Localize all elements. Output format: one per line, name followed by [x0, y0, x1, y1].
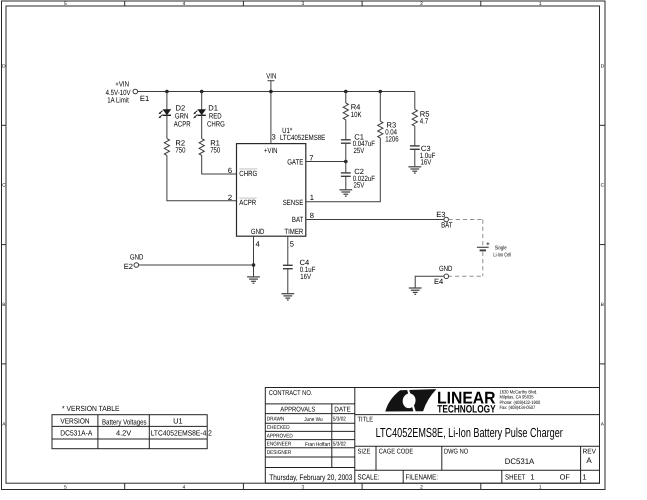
wire: VIN vertical to pin 3: [270, 81, 272, 144]
svg-text:June Wu: June Wu: [304, 417, 322, 423]
svg-text:DESIGNER: DESIGNER: [267, 450, 291, 456]
svg-text:SCALE:: SCALE:: [358, 472, 380, 481]
svg-text:4.2V: 4.2V: [116, 429, 131, 438]
ground below C3: [408, 167, 421, 173]
junction node pin4/E2: [252, 263, 256, 267]
terminal E3 BAT: [436, 210, 453, 230]
svg-text:Milpitas, CA 95035: Milpitas, CA 95035: [500, 395, 534, 401]
svg-text:VIN: VIN: [266, 71, 276, 80]
version table: [52, 404, 212, 449]
svg-text:FILENAME:: FILENAME:: [406, 472, 439, 481]
svg-text:OF: OF: [560, 473, 571, 482]
svg-text:C: C: [601, 183, 605, 189]
zone numbers top: [64, 1, 542, 7]
svg-text:1: 1: [539, 484, 542, 490]
svg-text:5: 5: [64, 484, 67, 490]
svg-text:SENSE: SENSE: [283, 198, 304, 207]
svg-text:1: 1: [582, 473, 586, 482]
resistor R3 0.04 1206: [306, 92, 399, 202]
svg-text:GATE: GATE: [287, 157, 303, 166]
svg-text:GND: GND: [130, 252, 144, 261]
svg-text:BAT: BAT: [292, 215, 304, 224]
svg-text:Single: Single: [495, 245, 507, 251]
svg-text:4: 4: [183, 1, 186, 7]
terminal E2 GND: [124, 252, 254, 270]
svg-text:D: D: [601, 63, 605, 69]
svg-text:C: C: [2, 183, 6, 189]
svg-text:6: 6: [228, 166, 232, 175]
capacitor C3 1.0uF: [410, 144, 436, 166]
resistor R4 10K: [343, 92, 361, 140]
zone ticks bottom: [125, 483, 481, 489]
svg-text:Thursday, February 20, 2003: Thursday, February 20, 2003: [269, 473, 353, 482]
LED D2 GRN/ACPR: [158, 92, 191, 139]
IC U1 LTC4052EMS8E: [228, 126, 325, 249]
wire: GATE pin 7 to C1/C2 node: [306, 161, 346, 163]
LED D1 RED/CHRG: [193, 92, 225, 139]
svg-text:LTC4052EMS8E: LTC4052EMS8E: [280, 133, 325, 142]
svg-text:4.7: 4.7: [420, 116, 429, 125]
zone ticks top: [125, 1, 481, 6]
svg-text:TECHNOLOGY: TECHNOLOGY: [437, 403, 495, 415]
svg-text:TIMER: TIMER: [284, 227, 303, 236]
svg-text:2: 2: [228, 193, 232, 202]
zone ticks right: [600, 125, 606, 364]
terminal E1: [106, 79, 150, 104]
svg-text:SIZE: SIZE: [358, 448, 371, 455]
svg-text:5: 5: [64, 1, 67, 7]
junction node GATE: [344, 160, 348, 164]
svg-text:GND: GND: [439, 264, 453, 273]
svg-text:25V: 25V: [354, 146, 366, 155]
wire: R1 to CHRG pin 6: [202, 155, 237, 174]
svg-text:DC531A: DC531A: [505, 457, 535, 466]
svg-text:E1: E1: [140, 94, 149, 103]
svg-text:E4: E4: [434, 277, 443, 286]
wire: TIMER pin 5 down: [287, 236, 289, 265]
svg-text:LTC4052EMS8E, Li-Ion Battery P: LTC4052EMS8E, Li-Ion Battery Pulse Charg…: [376, 425, 564, 440]
Linear Technology logo: [385, 389, 540, 416]
svg-text:VERSION: VERSION: [60, 416, 89, 425]
svg-text:BAT: BAT: [441, 221, 453, 230]
svg-text:LTC4052EMS8E-4.2: LTC4052EMS8E-4.2: [151, 429, 212, 438]
svg-text:+VIN: +VIN: [264, 146, 278, 155]
capacitor C1 0.047uF: [341, 132, 375, 173]
svg-text:16V: 16V: [300, 272, 312, 281]
svg-text:1: 1: [539, 1, 542, 7]
svg-text:2: 2: [420, 484, 423, 490]
battery cell: [477, 242, 511, 258]
svg-text:4: 4: [183, 484, 186, 490]
svg-text:1A Limit: 1A Limit: [107, 95, 129, 104]
wire: +VIN top rail: [138, 91, 415, 93]
svg-text:E2: E2: [124, 262, 133, 271]
zone ticks left: [2, 125, 7, 364]
resistor R5 4.7: [412, 92, 429, 146]
svg-text:GND: GND: [251, 227, 265, 236]
svg-text:Fax: (408)434-0507: Fax: (408)434-0507: [500, 405, 536, 411]
wire: GND pin 4 down: [253, 236, 255, 276]
ground below pin 4: [247, 277, 260, 283]
junction nodes on rail: [165, 90, 382, 94]
capacitor C4 0.1uF: [283, 258, 316, 293]
svg-text:B: B: [2, 302, 5, 308]
svg-text:A: A: [586, 456, 592, 465]
svg-text:CHRG: CHRG: [207, 120, 225, 129]
wire: dashed battery hookup: [449, 220, 483, 277]
svg-text:10K: 10K: [351, 110, 362, 119]
svg-text:CONTRACT NO.: CONTRACT NO.: [269, 390, 313, 397]
svg-text:U1: U1: [173, 416, 183, 425]
svg-text:E3: E3: [436, 210, 445, 219]
svg-text:3: 3: [301, 484, 304, 490]
zone letters right: [601, 63, 605, 427]
svg-text:DWG NO: DWG NO: [444, 448, 469, 455]
terminal E4 GND: [415, 264, 453, 287]
svg-text:DC531A-A: DC531A-A: [60, 429, 92, 438]
svg-text:APPROVED: APPROVED: [267, 433, 293, 439]
svg-text:DRAWN: DRAWN: [267, 417, 285, 423]
svg-text:16V: 16V: [421, 157, 433, 166]
title block: [265, 388, 599, 484]
ground at E4: [409, 288, 422, 294]
svg-text:Fran Hoffart: Fran Hoffart: [305, 442, 330, 448]
svg-text:5/3/02: 5/3/02: [333, 442, 346, 448]
svg-text:Battery Voltages: Battery Voltages: [102, 418, 147, 427]
svg-text:SHEET: SHEET: [505, 473, 526, 482]
svg-text:ENGINEER: ENGINEER: [267, 442, 291, 448]
svg-text:APPROVALS: APPROVALS: [280, 406, 315, 413]
svg-text:Phone: (408)432-1900: Phone: (408)432-1900: [500, 400, 541, 406]
svg-text:REV: REV: [583, 448, 597, 455]
zone numbers bottom: [64, 484, 542, 490]
wire: R2 to ACPR pin 2: [167, 155, 237, 200]
zone letters left: [2, 63, 6, 427]
power tap VIN: [266, 71, 276, 143]
svg-text:5/3/02: 5/3/02: [333, 417, 346, 423]
resistor R1 750: [199, 139, 236, 174]
svg-text:1630 McCarthy Blvd.: 1630 McCarthy Blvd.: [500, 390, 538, 396]
svg-text:* VERSION TABLE: * VERSION TABLE: [62, 404, 120, 413]
capacitor C2 0.022uF: [341, 167, 375, 190]
svg-text:ACPR: ACPR: [174, 120, 191, 129]
svg-text:2: 2: [420, 1, 423, 7]
svg-text:25V: 25V: [354, 180, 366, 189]
svg-text:8: 8: [310, 211, 314, 220]
svg-text:ACPR: ACPR: [239, 198, 256, 207]
svg-text:1206: 1206: [385, 135, 399, 144]
svg-text:5: 5: [290, 240, 294, 249]
svg-text:3: 3: [272, 133, 276, 142]
wire: E2 to pin4: [139, 264, 254, 266]
svg-text:CHRG: CHRG: [239, 169, 257, 178]
ground below C4: [281, 294, 294, 300]
svg-text:1: 1: [310, 193, 314, 202]
wire: BAT pin 8 to E3: [306, 219, 444, 221]
resistor R2 750: [164, 139, 236, 201]
svg-text:DATE: DATE: [334, 406, 351, 413]
svg-text:3: 3: [301, 1, 304, 7]
svg-text:TITLE: TITLE: [358, 417, 374, 424]
svg-text:Li-Ion Cell: Li-Ion Cell: [493, 253, 511, 259]
svg-text:1: 1: [530, 473, 534, 482]
svg-text:CHECKED: CHECKED: [267, 425, 290, 431]
svg-text:B: B: [601, 302, 604, 308]
svg-text:D: D: [2, 63, 6, 69]
svg-text:750: 750: [210, 146, 220, 155]
ground below C2: [339, 190, 352, 196]
wire: R3 to SENSE pin 1: [306, 138, 381, 202]
svg-text:CAGE CODE: CAGE CODE: [379, 448, 414, 455]
svg-text:750: 750: [175, 146, 185, 155]
svg-text:4: 4: [256, 240, 260, 249]
wire: E4 to ground: [415, 276, 444, 287]
